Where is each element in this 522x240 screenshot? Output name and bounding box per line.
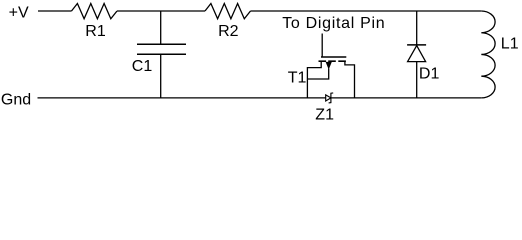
svg-text:To Digital Pin: To Digital Pin [282, 15, 385, 32]
gate bar of T1 [321, 56, 346, 58]
channel segments of T1 [319, 60, 346, 62]
body arrow of T1 [326, 62, 331, 68]
body-source tie wire [307, 69, 328, 80]
svg-text:+V: +V [9, 4, 29, 21]
resistor R2 [205, 4, 251, 19]
svg-text:R1: R1 [85, 23, 106, 40]
wire +V to R1 [38, 10, 72, 12]
wire digital pin to gate [321, 34, 323, 57]
svg-text:Z1: Z1 [315, 107, 334, 124]
svg-text:T1: T1 [288, 70, 307, 87]
inductor L1 [481, 11, 495, 98]
zener diode Z1 [326, 95, 331, 101]
source stub and wire of T1 [307, 61, 321, 98]
capacitor C1 [137, 43, 186, 45]
ground rail right (zener to coil bottom) [331, 97, 481, 99]
wire C1 top [160, 11, 162, 44]
svg-text:Gnd: Gnd [1, 92, 31, 109]
drain stub and wire of T1 [345, 61, 355, 98]
wire D1 top [416, 11, 418, 45]
wire R2 to L1 top (top rail) [251, 10, 482, 12]
wire D1 bottom [416, 62, 418, 98]
svg-text:D1: D1 [419, 65, 440, 82]
svg-text:R2: R2 [218, 23, 239, 40]
svg-text:L1: L1 [501, 36, 519, 53]
wire C1 bottom [160, 54, 162, 98]
svg-text:C1: C1 [132, 58, 153, 75]
wire R1 to R2 (through C1 node) [117, 10, 205, 12]
diode D1 [407, 44, 426, 46]
resistor R1 [72, 4, 118, 19]
